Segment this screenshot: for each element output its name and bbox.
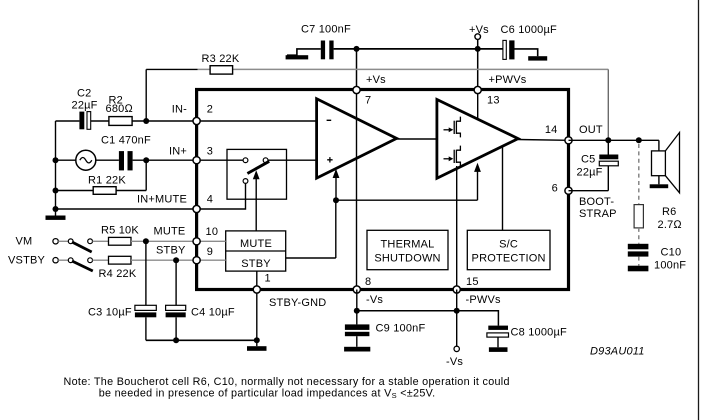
ground (speaker) bbox=[650, 176, 669, 189]
svg-text:Note: The Boucherot cell R6, C: Note: The Boucherot cell R6, C10, normal… bbox=[64, 376, 510, 388]
svg-text:R5 10K: R5 10K bbox=[101, 225, 139, 237]
pin 6 bbox=[552, 183, 572, 195]
capacitor C10 100nF bbox=[628, 244, 686, 272]
ground (left of C7) bbox=[286, 49, 321, 60]
wire C10 to ground dashed bbox=[638, 257, 640, 266]
capacitor C3 10uF bbox=[88, 241, 156, 340]
svg-text:-Vs: -Vs bbox=[446, 356, 463, 368]
svg-text:SHUTDOWN: SHUTDOWN bbox=[374, 253, 440, 265]
svg-text:9: 9 bbox=[207, 246, 213, 258]
junction dot OUT / C5 bbox=[605, 137, 611, 143]
ground (STBY-GND) bbox=[247, 346, 267, 351]
op-amp input stage triangle bbox=[317, 99, 397, 178]
svg-text:C2: C2 bbox=[77, 88, 91, 100]
svg-text:1: 1 bbox=[265, 272, 271, 284]
wire internal -PWVs pin15 line bbox=[456, 166, 458, 290]
svg-text:STBY-GND: STBY-GND bbox=[269, 297, 326, 309]
svg-text:14: 14 bbox=[545, 124, 558, 136]
svg-text:MUTE: MUTE bbox=[240, 238, 272, 250]
svg-text:C3 10µF: C3 10µF bbox=[88, 306, 132, 318]
junction dot STBY / C4 bbox=[173, 257, 179, 263]
op-amp U1 IC body TDA bbox=[197, 90, 569, 290]
wire signal ground bus bbox=[146, 339, 257, 341]
pin 3 bbox=[169, 146, 213, 164]
node +Vs terminal bbox=[469, 24, 489, 49]
pin 7 bbox=[353, 74, 386, 107]
svg-text:4: 4 bbox=[207, 194, 213, 206]
wire OUT net bbox=[569, 124, 659, 140]
resistor R1 22K bbox=[56, 160, 147, 194]
junction dot at C7 / pin7 column bbox=[354, 46, 360, 52]
junction dot MUTE / C3 bbox=[143, 238, 149, 244]
svg-text:3: 3 bbox=[207, 146, 213, 158]
svg-text:IN-: IN- bbox=[172, 103, 187, 115]
svg-text:VM: VM bbox=[16, 236, 33, 248]
junction dot OUT / Boucherot bbox=[636, 137, 642, 143]
svg-text:2: 2 bbox=[207, 103, 213, 115]
pin 9 bbox=[193, 246, 213, 264]
svg-text:C4 10µF: C4 10µF bbox=[191, 306, 235, 318]
wire R6 to C10 dashed bbox=[638, 228, 640, 244]
svg-text:OUT: OUT bbox=[579, 124, 603, 136]
svg-text:+PWVs: +PWVs bbox=[489, 74, 527, 86]
MUTE block bbox=[226, 231, 286, 271]
svg-text:IN+: IN+ bbox=[169, 146, 187, 158]
wire STBY block to pin1 bbox=[256, 271, 258, 289]
pin 15 bbox=[453, 276, 501, 306]
wire internal S/C sense line bbox=[502, 146, 504, 230]
pin 2 bbox=[172, 103, 213, 124]
svg-text:2.7Ω: 2.7Ω bbox=[658, 219, 683, 231]
wire input stage interconnect bbox=[197, 121, 569, 160]
wire pin4 to switch contact bbox=[197, 184, 246, 209]
capacitor C6 1000uF bbox=[501, 24, 558, 59]
capacitor C7 100nF bbox=[301, 24, 351, 60]
wire internal +Vs pin7 to pin8 bbox=[356, 90, 358, 290]
junction dot pin15 rail bbox=[454, 308, 460, 314]
svg-text:THERMAL: THERMAL bbox=[381, 239, 435, 251]
svg-text:22µF: 22µF bbox=[72, 100, 98, 112]
svg-text:R6: R6 bbox=[662, 206, 676, 218]
ground (right of C6) bbox=[515, 49, 548, 61]
wire pin1 to ground bus bbox=[256, 290, 258, 347]
resistor R2 680ohm bbox=[106, 95, 134, 126]
signal source V1 bbox=[56, 150, 96, 170]
wire pin9 to STBY block bbox=[197, 259, 226, 261]
wire pin13 riser bbox=[477, 49, 479, 88]
switch contacts and lever bbox=[243, 158, 269, 184]
svg-text:+Vs: +Vs bbox=[469, 24, 489, 36]
STBY block bbox=[241, 258, 271, 270]
switch SW2 (VSTBY) bbox=[58, 258, 93, 271]
wire internal +PWVs pin13 stub bbox=[477, 90, 479, 119]
ground (C8) bbox=[489, 347, 508, 352]
junction dot pin8 rail bbox=[354, 308, 360, 314]
resistor R3 22K bbox=[202, 53, 240, 74]
power stage triangle bbox=[437, 100, 518, 179]
capacitor C4 10uF bbox=[166, 260, 235, 340]
wire -Vs bottom rail bbox=[357, 290, 499, 326]
svg-text:8: 8 bbox=[365, 276, 371, 288]
mute arrow into input stage bbox=[333, 169, 340, 200]
svg-text:MUTE: MUTE bbox=[154, 226, 186, 238]
svg-text:C1 470nF: C1 470nF bbox=[101, 135, 151, 147]
node -Vs terminal bbox=[446, 311, 463, 368]
junction dot source rail / R1 bbox=[53, 188, 59, 194]
transistor Q2 (lower DMOS) bbox=[444, 146, 461, 167]
resistor R6 2.7ohm bbox=[634, 205, 682, 231]
svg-text:C10: C10 bbox=[661, 247, 682, 259]
resistor R4 22K bbox=[93, 256, 197, 280]
svg-text:STRAP: STRAP bbox=[579, 208, 617, 220]
wire feedback net (OUT to R3 to IN-) bbox=[146, 69, 608, 140]
THERMAL SHUTDOWN block bbox=[367, 230, 448, 269]
svg-text:D93AU011: D93AU011 bbox=[590, 346, 645, 358]
svg-text:STBY: STBY bbox=[156, 245, 186, 257]
frame border line (right page rule) bbox=[698, 0, 700, 420]
wire input source left rail bbox=[55, 121, 57, 216]
ground (Boucherot) bbox=[628, 266, 649, 272]
svg-text:6: 6 bbox=[552, 183, 558, 195]
capacitor C2 22uF bbox=[72, 88, 98, 130]
svg-text:R3 22K: R3 22K bbox=[202, 53, 240, 65]
ground (C9) bbox=[344, 347, 370, 352]
svg-text:C8 1000µF: C8 1000µF bbox=[511, 326, 568, 338]
junction dot mute net bbox=[333, 197, 339, 203]
svg-text:C9 100nF: C9 100nF bbox=[376, 323, 426, 335]
svg-text:7: 7 bbox=[365, 95, 371, 107]
switch box (mute switch) bbox=[227, 149, 287, 199]
svg-text:R4 22K: R4 22K bbox=[99, 268, 137, 280]
svg-text:C5: C5 bbox=[581, 153, 595, 165]
junction dot source rail / IN+MUTE bbox=[53, 206, 59, 212]
svg-text:-Vs: -Vs bbox=[366, 294, 383, 306]
junction dot IN+ / R1 bbox=[143, 157, 149, 163]
wire pin7 riser bbox=[356, 49, 358, 88]
ground (input network) bbox=[46, 216, 66, 220]
node VM terminal bbox=[16, 236, 59, 248]
S/C PROTECTION block bbox=[467, 230, 550, 269]
pin 10 bbox=[193, 226, 218, 245]
wire IN+MUTE net bbox=[56, 208, 197, 210]
svg-text:STBY: STBY bbox=[241, 258, 271, 270]
svg-text:VSTBY: VSTBY bbox=[8, 255, 46, 267]
svg-text:13: 13 bbox=[487, 95, 500, 107]
svg-text:680Ω: 680Ω bbox=[106, 103, 134, 115]
wire +Vs top rail bbox=[334, 48, 503, 50]
svg-text:be needed in presence of parti: be needed in presence of particular load… bbox=[99, 387, 436, 400]
pin 8 bbox=[353, 276, 383, 306]
wire Boucherot dashed bbox=[638, 144, 640, 205]
capacitor C5 22uF bootstrap bbox=[569, 140, 619, 190]
pin 13 bbox=[474, 74, 527, 107]
mute arrow into power stage bbox=[474, 163, 481, 201]
pin 14 bbox=[545, 124, 572, 144]
svg-text:10: 10 bbox=[206, 226, 219, 238]
svg-text:IN+MUTE: IN+MUTE bbox=[137, 194, 187, 206]
capacitor C8 1000uF bbox=[487, 326, 567, 348]
junction dot source rail / sine bbox=[53, 157, 59, 163]
wire internal mute control net bbox=[286, 200, 478, 258]
svg-text:15: 15 bbox=[466, 276, 479, 288]
switch SW1 (VM) bbox=[58, 239, 92, 252]
pin 4 bbox=[137, 194, 213, 213]
wire IN- net bbox=[56, 120, 197, 122]
speaker LS1 bbox=[652, 133, 680, 193]
wire pin10 to MUTE block bbox=[197, 240, 226, 242]
svg-text:-PWVs: -PWVs bbox=[466, 294, 502, 306]
svg-text:R1 22K: R1 22K bbox=[88, 175, 126, 187]
transistor Q1 (upper DMOS) bbox=[444, 117, 461, 138]
svg-text:22µF: 22µF bbox=[577, 167, 603, 179]
svg-text:100nF: 100nF bbox=[654, 260, 686, 272]
junction dot pin1 / ground bus bbox=[254, 337, 260, 343]
pin 1 bbox=[253, 272, 326, 309]
node BOOT-STRAP label bbox=[579, 196, 617, 220]
junction dot C4 / ground bus bbox=[173, 337, 179, 343]
svg-text:C7 100nF: C7 100nF bbox=[301, 24, 351, 36]
svg-text:PROTECTION: PROTECTION bbox=[472, 253, 546, 265]
svg-text:BOOT-: BOOT- bbox=[579, 196, 614, 208]
capacitor C1 470nF bbox=[96, 135, 197, 171]
svg-text:C6 1000µF: C6 1000µF bbox=[501, 24, 558, 36]
note text bbox=[64, 376, 510, 400]
svg-text:S/C: S/C bbox=[499, 239, 518, 251]
junction dot at +Vs / pin13 column bbox=[475, 46, 481, 52]
resistor R5 10K bbox=[93, 225, 197, 246]
mute switch control arrow bbox=[253, 170, 260, 231]
node VSTBY terminal bbox=[8, 255, 58, 267]
junction node IN- / R3 bbox=[143, 118, 149, 124]
capacitor C9 100nF bbox=[345, 311, 426, 347]
svg-text:+Vs: +Vs bbox=[366, 74, 386, 86]
